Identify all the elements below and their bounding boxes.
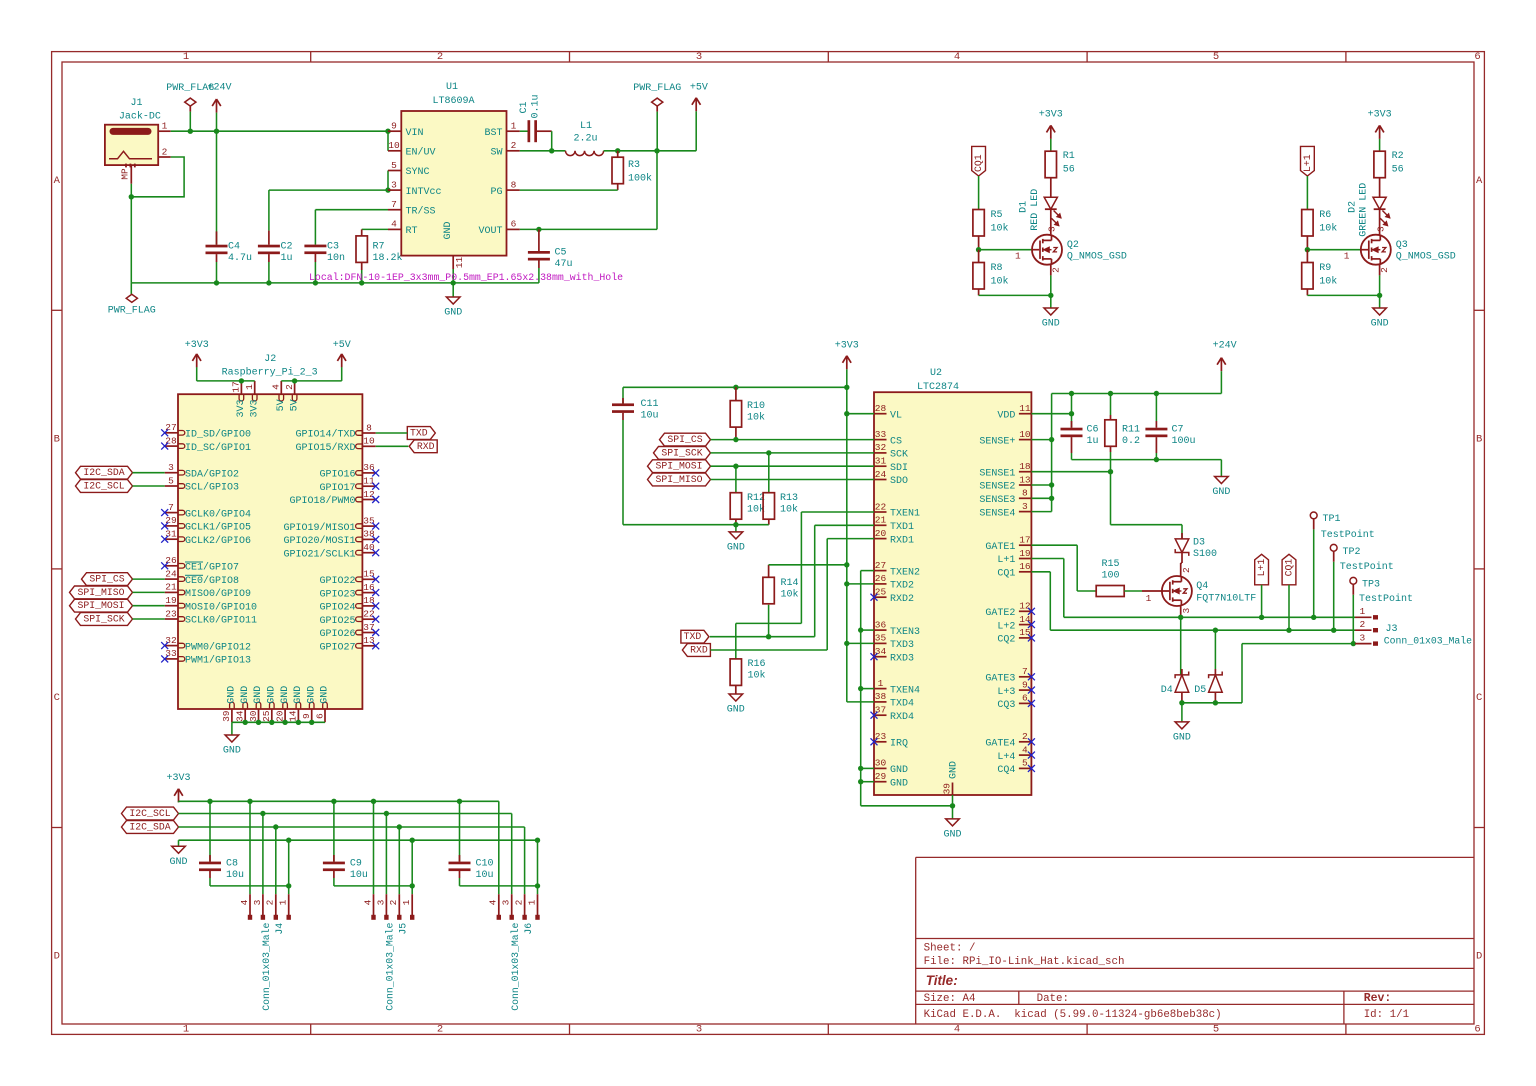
svg-text:6: 6: [1474, 51, 1480, 63]
svg-text:GND: GND: [306, 686, 317, 704]
svg-text:GND: GND: [943, 829, 961, 840]
wire J4 pin4 drop: [249, 801, 251, 894]
svg-text:SENSE4: SENSE4: [979, 508, 1015, 519]
svg-text:R16: R16: [748, 659, 766, 670]
U2 pin 12 GATE2: [985, 601, 1031, 619]
global label SPI_SCK at J2: [76, 613, 133, 626]
svg-text:GND: GND: [1042, 319, 1060, 330]
wire I2C_SCL rail: [179, 813, 512, 815]
svg-text:4: 4: [488, 899, 499, 905]
svg-text:+3V3: +3V3: [1368, 110, 1392, 121]
svg-text:L+3: L+3: [997, 687, 1015, 698]
svg-text:CQ1: CQ1: [997, 569, 1015, 580]
no-connect U2 pin 7: [1028, 673, 1035, 680]
svg-text:D5: D5: [1194, 685, 1206, 696]
junction +3V3 rail C10: [457, 799, 462, 804]
svg-text:23: 23: [875, 731, 887, 742]
wire Q3 source: [1379, 264, 1390, 295]
J1 pin 2: [158, 146, 171, 157]
wire CQ1 to R5: [978, 176, 980, 210]
diode D5: [1194, 630, 1222, 703]
junction MP/pin2: [129, 194, 134, 199]
wire D3 to Q4 drain: [1181, 553, 1192, 577]
capacitor C10 10u: [449, 801, 494, 886]
svg-text:10k: 10k: [781, 588, 799, 600]
wire I2C_SDA rail: [179, 826, 525, 828]
wire +3V3 to R1: [1050, 139, 1052, 151]
global label SPI_MOSI at J2: [70, 599, 133, 612]
svg-text:SW: SW: [490, 148, 502, 159]
svg-text:100u: 100u: [1172, 436, 1196, 447]
junction SW/R3: [615, 148, 620, 153]
no-connect J2 pin 12: [372, 496, 379, 503]
svg-text:10u: 10u: [350, 870, 368, 881]
connector J3 Conn_01x03_Male: [1355, 606, 1472, 647]
svg-text:C4: C4: [228, 242, 240, 253]
no-connect J2 pin 37: [372, 629, 379, 636]
wire C8 to J4 pin 1: [210, 885, 289, 887]
wire TXEN2 chain down to GND: [861, 571, 953, 806]
svg-text:1: 1: [878, 678, 884, 689]
svg-text:1: 1: [526, 899, 537, 905]
wire SPI_MISO to J2 pin 21: [133, 591, 165, 593]
U2 pin 8 SENSE3: [979, 488, 1031, 506]
svg-text:7: 7: [168, 502, 174, 513]
junction TP3: [1351, 641, 1356, 646]
wire VIN line J1 pin1 to U1: [171, 130, 388, 132]
J2 pin 25 GND: [261, 686, 277, 723]
wire TXEN1 to R16: [736, 512, 874, 659]
svg-text:R1: R1: [1063, 151, 1075, 162]
svg-text:1u: 1u: [281, 253, 293, 264]
U2 pin 6 CQ3: [997, 693, 1031, 711]
global label I2C_SCL at J2: [76, 480, 133, 493]
svg-text:GND: GND: [267, 686, 278, 704]
wire U1 ground rail: [131, 282, 539, 284]
junction J6 pin1 column: [535, 883, 540, 888]
svg-text:32: 32: [165, 635, 177, 646]
wire PWR_FLAG to VIN net: [189, 112, 191, 132]
wire R6 to gate: [1306, 236, 1308, 250]
svg-text:100k: 100k: [628, 173, 652, 185]
svg-text:Raspberry_Pi_2_3: Raspberry_Pi_2_3: [222, 366, 318, 378]
svg-text:TXD3: TXD3: [890, 640, 914, 651]
global label SPI_MISO at J2: [70, 586, 133, 599]
U2 pin 13 SENSE2: [979, 474, 1031, 492]
svg-text:RXD: RXD: [690, 645, 708, 656]
svg-text:TXEN1: TXEN1: [890, 509, 920, 520]
svg-text:B: B: [1476, 434, 1482, 446]
svg-text:TXEN3: TXEN3: [890, 627, 920, 638]
svg-text:7: 7: [1022, 666, 1028, 677]
svg-text:GATE3: GATE3: [985, 674, 1015, 685]
svg-text:1: 1: [401, 899, 412, 905]
svg-text:SENSE2: SENSE2: [979, 482, 1015, 493]
svg-text:3: 3: [375, 899, 386, 905]
svg-text:GREEN LED: GREEN LED: [1359, 183, 1370, 237]
svg-text:37: 37: [363, 622, 374, 633]
wire CQ1 pin to pin2 line: [1031, 572, 1050, 630]
U1 pin 7 TR/SS: [388, 199, 436, 217]
junction VIN/+24V/C4: [214, 129, 219, 134]
junction D4 anode / GND: [1179, 700, 1184, 705]
wire SPI_CS to J2 pin 24: [133, 578, 165, 580]
svg-text:GPIO15/RXD: GPIO15/RXD: [295, 442, 355, 454]
capacitor C3 10n: [304, 242, 345, 283]
U2 pin 15 CQ2: [997, 627, 1031, 645]
svg-text:33: 33: [875, 429, 887, 440]
power flag PWR_FLAG (input): [166, 83, 214, 112]
wire TP1 to pin1 line: [1313, 529, 1315, 617]
junction L+1 tag: [1259, 615, 1264, 620]
U2 pin 29 GND: [874, 771, 908, 789]
svg-text:GND: GND: [890, 765, 908, 776]
svg-text:L+2: L+2: [997, 621, 1015, 632]
no-connect U2 pin 15: [1028, 634, 1035, 641]
power flag PWR_FLAG on +5V: [633, 83, 681, 112]
U2 pin 17 GATE1: [985, 535, 1031, 553]
svg-text:10: 10: [388, 140, 400, 151]
svg-text:SPI_MISO: SPI_MISO: [77, 587, 124, 598]
svg-text:PG: PG: [490, 187, 502, 198]
svg-text:RXD1: RXD1: [890, 535, 914, 546]
U2 pin 9 L+3: [997, 679, 1031, 697]
U2 pin 24 SDO: [874, 469, 908, 487]
svg-text:J5: J5: [398, 923, 409, 935]
junction C1/SW: [549, 148, 554, 153]
svg-text:Title:: Title:: [926, 973, 958, 988]
wire RT line to R7: [362, 229, 388, 236]
junction rail C4: [214, 280, 219, 285]
svg-text:8: 8: [1022, 488, 1028, 499]
junction TXD3: [844, 641, 849, 646]
connector J2 Raspberry_Pi_2_3 body: [178, 354, 362, 709]
svg-text:16: 16: [1019, 561, 1031, 572]
svg-text:5: 5: [1213, 51, 1219, 63]
svg-text:R15: R15: [1101, 559, 1119, 570]
wire Q4 source to D4: [1181, 606, 1192, 675]
wire SENSE+ chain vertical: [1031, 394, 1051, 512]
junction +3V3 rail J5 pin4: [371, 799, 376, 804]
capacitor C9 10u: [323, 801, 368, 886]
wire TR/SS line to C3: [315, 210, 388, 245]
svg-text:PWM0/GPIO12: PWM0/GPIO12: [185, 641, 251, 653]
title block sheet/file text: [924, 942, 1125, 968]
svg-text:SCLK0/GPIO11: SCLK0/GPIO11: [185, 615, 257, 627]
U1 pin 4 RT: [388, 219, 418, 237]
svg-text:10k: 10k: [1319, 275, 1337, 287]
footprint text Local:DFN: [309, 272, 623, 283]
svg-text:7: 7: [391, 199, 397, 210]
svg-text:10u: 10u: [641, 410, 659, 421]
svg-text:TestPoint: TestPoint: [1359, 593, 1413, 605]
svg-text:26: 26: [875, 573, 887, 584]
svg-text:10k: 10k: [748, 670, 766, 682]
svg-text:GND: GND: [293, 686, 304, 704]
svg-text:R14: R14: [781, 578, 799, 589]
wire TP3 to pin3 line: [1352, 595, 1354, 644]
svg-text:GND: GND: [169, 857, 187, 868]
svg-text:21: 21: [875, 515, 887, 526]
svg-text:D: D: [54, 950, 60, 962]
svg-text:25: 25: [875, 587, 887, 598]
svg-text:2: 2: [1181, 567, 1192, 573]
no-connect U2 pin 25: [871, 594, 878, 601]
junction VL: [844, 411, 849, 416]
svg-text:32: 32: [875, 442, 887, 453]
J2 pin 12: [289, 489, 375, 507]
svg-text:31: 31: [165, 529, 177, 540]
svg-text:A: A: [1476, 175, 1483, 187]
wire bottom GND rail: [179, 840, 538, 846]
U1 pin 5 SYNC: [388, 160, 430, 178]
connector J1 Jack-DC: [105, 98, 161, 168]
junction TXEN4: [858, 686, 863, 691]
svg-text:SPI_MOSI: SPI_MOSI: [655, 461, 702, 472]
svg-text:RED LED: RED LED: [1030, 189, 1041, 231]
junction GND rail J5 pin1: [410, 838, 415, 843]
svg-text:SPI_MOSI: SPI_MOSI: [77, 600, 124, 611]
wire SPI_MISO to U2 SDO: [711, 479, 875, 481]
svg-text:2: 2: [511, 140, 517, 151]
svg-text:TP1: TP1: [1323, 514, 1341, 525]
ground symbol below U2: [943, 819, 961, 841]
svg-text:CQ2: CQ2: [997, 635, 1015, 646]
wire +5V arrow to rail: [695, 111, 697, 151]
wire SYNC to INTVcc branch: [387, 171, 389, 191]
wire D2 to drain: [1375, 209, 1386, 235]
no-connect U2 pin 14: [1028, 621, 1035, 628]
no-connect J2 pin 15: [372, 576, 379, 583]
junction I2C_SCL J4 pin3: [260, 811, 265, 816]
no-connect J2 pin 18: [372, 602, 379, 609]
svg-text:R6: R6: [1319, 210, 1331, 221]
svg-text:C1: C1: [519, 101, 530, 113]
svg-text:SENSE1: SENSE1: [979, 468, 1015, 479]
connector J4 Conn_01x03_Male: [239, 894, 291, 1011]
transistor Q2 Q_NMOS_GSD: [1032, 235, 1127, 265]
svg-text:4: 4: [239, 899, 250, 905]
svg-text:19: 19: [1019, 548, 1031, 559]
svg-text:1: 1: [1146, 593, 1152, 604]
svg-text:GCLK1/GPIO5: GCLK1/GPIO5: [185, 522, 251, 534]
junction TP2: [1331, 628, 1336, 633]
junction J2 GND pin 25: [269, 720, 274, 725]
junction I2C_SCL J5 pin3: [384, 811, 389, 816]
junction SENSE+: [1049, 437, 1054, 442]
ground symbol Q3: [1371, 295, 1389, 329]
wire SENSE1 to R11: [1031, 471, 1110, 473]
wire J6 pin4 drop: [498, 801, 500, 894]
svg-text:Q_NMOS_GSD: Q_NMOS_GSD: [1067, 252, 1127, 263]
svg-text:B: B: [54, 434, 60, 446]
junction GND rail J6 pin1: [535, 838, 540, 843]
no-connect U2 pin 6: [1028, 700, 1035, 707]
J2 pin 11: [319, 476, 375, 494]
svg-text:11: 11: [454, 257, 465, 269]
wire GND29 stub: [861, 781, 874, 783]
svg-text:9: 9: [301, 713, 312, 719]
svg-text:R9: R9: [1319, 263, 1331, 274]
svg-text:22: 22: [875, 501, 887, 512]
junction J4 pin1 column: [286, 883, 291, 888]
svg-text:38: 38: [363, 529, 375, 540]
wire +3V3 down to VL column: [846, 369, 848, 387]
svg-text:GPIO25: GPIO25: [319, 616, 355, 627]
svg-text:3: 3: [1360, 632, 1366, 643]
svg-text:GPIO16: GPIO16: [319, 470, 355, 481]
junction J2 pin 17: [239, 378, 244, 383]
title block size/date/rev: [924, 992, 1392, 1005]
title block outline: [916, 857, 1474, 1024]
svg-text:29: 29: [875, 771, 887, 782]
junction J2 GND pin 9: [309, 720, 314, 725]
power +3V3 at U2: [835, 340, 859, 369]
junction VIN/EN-UV branch: [385, 129, 390, 134]
wire L+1 pin to pin1 line: [1031, 559, 1063, 618]
svg-text:4: 4: [271, 384, 282, 390]
power +5V: [690, 83, 708, 112]
wire D4/D5 anode line to J3 pin3: [1182, 644, 1355, 703]
junction J2 GND pin 20: [282, 720, 287, 725]
capacitor C6 1u: [1061, 421, 1099, 460]
svg-text:24: 24: [165, 568, 177, 579]
svg-text:10n: 10n: [327, 253, 345, 264]
svg-text:FQT7N10LTF: FQT7N10LTF: [1196, 594, 1256, 605]
J2 pin 3: [165, 462, 239, 480]
transistor Q4 FQT7N10LTF: [1162, 576, 1256, 606]
svg-text:+5V: +5V: [333, 340, 351, 351]
power flag PWR_FLAG (ground): [108, 283, 156, 316]
junction SCK/R13: [766, 450, 771, 455]
J2 pin 17 3V3: [231, 381, 247, 418]
svg-text:CE0/GPIO8: CE0/GPIO8: [185, 575, 239, 587]
svg-text:38: 38: [875, 691, 887, 702]
svg-text:SPI_CS: SPI_CS: [667, 434, 702, 445]
svg-text:33: 33: [165, 648, 177, 659]
U2 pin 18 SENSE1: [979, 461, 1031, 479]
svg-text:11: 11: [363, 476, 375, 487]
svg-text:+3V3: +3V3: [166, 773, 190, 784]
svg-text:Conn_01x03_Male: Conn_01x03_Male: [384, 922, 395, 1010]
J1 pin MP: [120, 165, 132, 184]
svg-text:3: 3: [168, 462, 174, 473]
capacitor C5 47u: [528, 229, 573, 283]
no-connect U2 pin 34: [871, 653, 878, 660]
svg-text:I2C_SCL: I2C_SCL: [83, 481, 124, 492]
svg-text:47u: 47u: [555, 259, 573, 270]
U2 pin 7 GATE3: [985, 666, 1031, 684]
junction source/R8: [1048, 293, 1053, 298]
svg-text:VOUT: VOUT: [478, 226, 502, 237]
J2 pin 7: [165, 502, 251, 520]
svg-text:17: 17: [1019, 535, 1030, 546]
svg-text:18.2k: 18.2k: [373, 252, 403, 264]
svg-text:RXD2: RXD2: [890, 594, 914, 605]
svg-text:GATE4: GATE4: [985, 739, 1015, 750]
svg-text:36: 36: [363, 462, 375, 473]
svg-text:GND: GND: [949, 761, 960, 779]
no-connect U2 pin 23: [871, 738, 878, 745]
svg-text:+3V3: +3V3: [1039, 110, 1063, 121]
svg-text:A: A: [54, 175, 61, 187]
svg-text:C3: C3: [327, 242, 339, 253]
junction SENSE2: [1049, 482, 1054, 487]
wire PWR_FLAG/VOUT vertical: [520, 112, 657, 230]
svg-text:SPI_SCK: SPI_SCK: [661, 447, 702, 458]
wire J6 pin3 drop: [511, 814, 513, 895]
svg-text:40: 40: [363, 542, 375, 553]
svg-text:C9: C9: [350, 858, 362, 869]
svg-text:3V3: 3V3: [249, 399, 260, 417]
ground symbol below R12: [727, 525, 745, 554]
global label I2C_SCL bottom: [122, 807, 179, 820]
svg-text:TXEN4: TXEN4: [890, 685, 920, 696]
svg-text:13: 13: [363, 635, 375, 646]
wire +3V3 to J2 3V3 rail: [197, 367, 255, 381]
svg-text:MISO0/GPIO9: MISO0/GPIO9: [185, 588, 251, 600]
test point TP3: [1350, 577, 1413, 605]
svg-text:GND: GND: [443, 221, 454, 239]
svg-text:2: 2: [265, 899, 276, 905]
svg-text:R11: R11: [1122, 425, 1140, 436]
svg-text:CQ1: CQ1: [1284, 559, 1295, 577]
svg-text:GPIO22: GPIO22: [319, 576, 355, 587]
junction SDI/R12: [733, 464, 738, 469]
svg-text:2: 2: [1379, 267, 1390, 273]
svg-text:J1: J1: [130, 98, 142, 109]
svg-text:27: 27: [875, 560, 886, 571]
no-connect U2 pin 4: [1028, 752, 1035, 759]
wire I2C_SCL to J2 pin 5: [133, 485, 165, 487]
svg-text:D3: D3: [1193, 538, 1205, 549]
svg-text:16: 16: [363, 582, 375, 593]
global label L+1: [1301, 146, 1315, 176]
svg-text:GND: GND: [320, 686, 331, 704]
J2 pin 38: [283, 529, 375, 547]
svg-text:S100: S100: [1193, 549, 1217, 560]
junction pin39/gnd rail: [950, 803, 955, 808]
svg-text:SPI_CS: SPI_CS: [89, 574, 124, 585]
ground symbol below D4: [1173, 703, 1191, 744]
U2 pin 32 SCK: [874, 442, 908, 460]
svg-text:4: 4: [1022, 744, 1028, 755]
svg-text:28: 28: [875, 403, 887, 414]
wire J5 pin2 drop: [398, 827, 400, 894]
U2 pin 34 RXD3: [874, 646, 914, 664]
svg-text:GND: GND: [1371, 319, 1389, 330]
connector J6 Conn_01x03_Male: [488, 894, 540, 1011]
svg-text:SYNC: SYNC: [406, 167, 430, 178]
wire GND30 stub: [861, 767, 874, 769]
svg-text:C8: C8: [226, 858, 238, 869]
svg-text:INTVcc: INTVcc: [406, 187, 442, 198]
junction top rail +3V3: [844, 385, 849, 390]
svg-text:10k: 10k: [991, 222, 1009, 234]
svg-text:RXD3: RXD3: [890, 653, 914, 664]
U1 pin 11 GND: [443, 221, 465, 269]
svg-text:GND: GND: [890, 778, 908, 789]
svg-text:1: 1: [162, 121, 168, 132]
junction I2C_SDA J4 pin2: [273, 824, 278, 829]
junction rail R7: [359, 280, 364, 285]
wire D1 to drain: [1047, 209, 1058, 235]
svg-text:GPIO27: GPIO27: [319, 643, 355, 654]
svg-text:2: 2: [437, 1023, 443, 1035]
J2 pin 22: [319, 609, 375, 627]
wire C6/C7 ground rail: [1072, 460, 1222, 477]
wire GATE1 to R15: [1031, 545, 1096, 591]
